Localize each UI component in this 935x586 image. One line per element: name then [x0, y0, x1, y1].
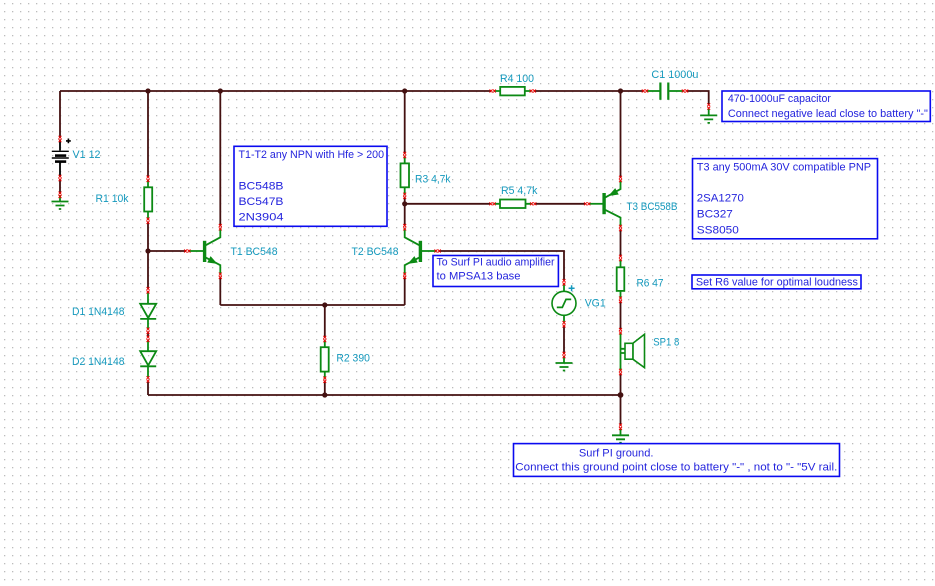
pin marks D2 — [147, 336, 150, 342]
source VG1 — [552, 284, 576, 323]
resistor R3 — [401, 157, 410, 196]
svg-text:to MPSA13 base: to MPSA13 base — [437, 271, 521, 283]
wire node B to R5 — [405, 203, 491, 205]
wire T1 emitter — [219, 277, 221, 305]
pin marks D1 — [147, 287, 150, 293]
svg-text:Surf PI ground.: Surf PI ground. — [579, 448, 654, 460]
resistor R2 — [321, 341, 329, 379]
note box Set R6 value — [692, 275, 861, 289]
note box Surf PI ground — [514, 444, 840, 477]
node junction T1 base — [145, 248, 150, 253]
wire V1 top — [59, 91, 61, 138]
svg-text:Connect negative lead close to: Connect negative lead close to battery "… — [728, 108, 928, 120]
node junction top rail x=621 — [618, 88, 623, 93]
wire T1 collector — [219, 91, 221, 226]
svg-text:VG1: VG1 — [585, 298, 606, 310]
wire R1 top — [147, 91, 149, 177]
node junction top rail x=220 — [218, 88, 223, 93]
diode D2 — [140, 341, 156, 378]
wire R1 bottom to base node — [147, 222, 149, 251]
capacitor C1 — [647, 83, 683, 100]
wire R6 to SP1 — [620, 301, 622, 330]
svg-text:Connect this ground point clo: Connect this ground point close to batte… — [515, 461, 837, 473]
wire bottom junction to ground — [620, 395, 622, 426]
node junction top rail x=405 — [402, 88, 407, 93]
svg-text:T1-T2 any NPN with Hfe > 200: T1-T2 any NPN with Hfe > 200 — [239, 149, 385, 161]
wire D2 to bottom corner — [147, 382, 149, 396]
svg-text:R5 4,7k: R5 4,7k — [501, 185, 538, 197]
svg-text:R2 390: R2 390 — [336, 352, 370, 364]
wire T3 emitter top — [620, 91, 622, 178]
wire D1 to D2 — [147, 333, 149, 338]
resistor R6 — [617, 260, 625, 299]
svg-text:BC548B: BC548B — [239, 181, 284, 193]
wire bottom rail — [148, 394, 621, 396]
svg-text:2SA1270: 2SA1270 — [697, 192, 744, 204]
wire R3 bottom to node B — [404, 197, 406, 204]
note box To Surf PI audio amplifier — [433, 256, 558, 287]
svg-text:V1 12: V1 12 — [73, 149, 101, 161]
battery V1 — [52, 139, 71, 177]
wire VG1 bottom to ground — [563, 326, 565, 354]
pin marks R1 — [147, 176, 150, 182]
ground (below VG1) — [556, 357, 573, 371]
note box T3 any 500mA PNP — [693, 159, 878, 239]
wire T1 base — [148, 250, 186, 252]
pin marks T1 — [184, 250, 190, 253]
wire SP1 to bottom junction — [620, 373, 622, 395]
speaker SP1 — [621, 333, 645, 372]
wire T2 base to VG1 — [439, 251, 565, 281]
svg-text:T2 BC548: T2 BC548 — [352, 246, 399, 258]
pin marks V1 — [59, 136, 62, 142]
svg-text:R4 100: R4 100 — [500, 73, 534, 85]
node junction top rail x=148 — [145, 88, 150, 93]
ground (below V1) — [52, 195, 69, 209]
wire R2 top — [324, 305, 326, 338]
wire T2 emitter — [404, 277, 406, 305]
wire V1 bottom to ground — [59, 180, 61, 194]
wire T3 collector to R6 — [620, 230, 622, 257]
node junction R3 bottom — [402, 201, 407, 206]
pin marks C1 — [642, 90, 648, 93]
node junction bottom rail ground — [618, 392, 624, 398]
svg-text:R6 47: R6 47 — [637, 278, 664, 290]
pin marks VG1 — [563, 279, 566, 285]
wire C1 right to ground corner — [687, 91, 709, 105]
svg-text:C1 1000u: C1 1000u — [651, 69, 698, 81]
svg-text:BC547B: BC547B — [239, 196, 284, 208]
transistor T1 (NPN BC548) — [189, 229, 221, 275]
svg-text:R1 10k: R1 10k — [96, 193, 129, 205]
wire R2 bottom — [324, 381, 326, 395]
svg-text:Set R6 value for optimal loudn: Set R6 value for optimal loudness — [696, 277, 858, 289]
ground (bottom, Surf PI ground) — [612, 429, 629, 443]
svg-text:D1 1N4148: D1 1N4148 — [72, 306, 125, 318]
note box T1-T2 any NPN — [234, 146, 387, 226]
transistor T3 (PNP BC558B) — [590, 181, 621, 227]
svg-text:2N3904: 2N3904 — [239, 211, 284, 223]
svg-text:T3 BC558B: T3 BC558B — [627, 201, 678, 213]
resistor R4 — [495, 87, 532, 96]
svg-text:SP1 8: SP1 8 — [653, 336, 679, 348]
svg-text:R3 4,7k: R3 4,7k — [415, 173, 451, 185]
node junction emitter rail R2 — [322, 302, 327, 307]
node junction bottom rail R2 — [322, 392, 327, 397]
pin marks T2 — [434, 250, 440, 253]
pin marks R5 — [489, 202, 495, 205]
pin marks R4 — [490, 90, 496, 93]
wire top rail left segment — [60, 90, 491, 92]
wire base node to D1 — [147, 251, 149, 289]
wire R5 to T3 base — [535, 203, 585, 205]
ground (C1 negative) — [700, 109, 717, 123]
transistor T2 (NPN BC548, mirrored) — [405, 229, 437, 275]
wire node B to T2 collector — [404, 204, 406, 226]
pin marks SP1 — [619, 328, 622, 334]
svg-text:D2 1N4148: D2 1N4148 — [72, 356, 125, 368]
svg-text:470-1000uF capacitor: 470-1000uF capacitor — [728, 93, 831, 105]
resistor R5 — [495, 200, 532, 209]
pin marks R3 — [403, 152, 406, 158]
diode D1 — [140, 292, 156, 330]
pin marks R6 — [619, 255, 622, 261]
svg-text:SS8050: SS8050 — [697, 225, 739, 237]
note box 470-1000uF capacitor — [722, 91, 930, 122]
wire top rail right segment (R4 to C1) — [535, 90, 644, 92]
pin mark bottom ground — [619, 424, 622, 430]
wire R3 top — [404, 91, 406, 154]
pin marks R2 — [323, 336, 326, 342]
wire emitter rail — [220, 304, 404, 306]
pin marks T3 — [584, 202, 590, 205]
svg-text:BC327: BC327 — [697, 209, 733, 221]
svg-text:T1 BC548: T1 BC548 — [231, 246, 278, 258]
svg-text:T3 any 500mA 30V compatible: T3 any 500mA 30V compatible PNP — [697, 161, 871, 173]
svg-text:To Surf PI audio amplifier: To Surf PI audio amplifier — [437, 256, 555, 268]
resistor R1 — [144, 180, 152, 220]
